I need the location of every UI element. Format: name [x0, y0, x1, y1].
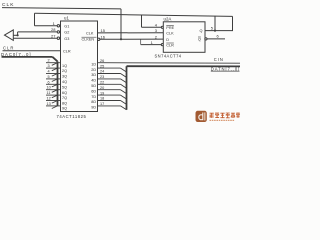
wire Q net drop to PRE pin4: [141, 15, 143, 27]
svg-text:28: 28: [51, 27, 56, 32]
bubble U2A Qbar: [205, 38, 207, 40]
svg-text:13: 13: [47, 102, 51, 106]
svg-text:16: 16: [101, 35, 106, 40]
svg-text:4Q: 4Q: [62, 80, 67, 84]
watermark logo eeworld: [196, 111, 207, 122]
svg-text:5Q: 5Q: [62, 85, 67, 89]
svg-text:7Q: 7Q: [62, 96, 67, 100]
wire pin13 row: [46, 105, 61, 107]
wire U2A Q pin5: [205, 30, 233, 32]
svg-text:9D: 9D: [91, 106, 96, 110]
svg-text:27: 27: [51, 33, 56, 38]
svg-text:CLR: CLR: [166, 43, 174, 47]
svg-text:5: 5: [48, 75, 50, 79]
svg-text:Q: Q: [198, 37, 201, 41]
svg-text:2: 2: [48, 59, 50, 63]
svg-text:CIN: CIN: [214, 57, 224, 62]
svg-text:7D: 7D: [91, 95, 96, 99]
svg-text:u1: u1: [64, 15, 69, 20]
svg-text:DATN[7..0]: DATN[7..0]: [211, 66, 240, 71]
input port triangle: [5, 30, 14, 41]
wire Q feedback net horizontal: [35, 13, 233, 16]
wire U2A CLR pin1: [141, 44, 162, 46]
svg-text:CLK: CLK: [166, 31, 174, 35]
svg-text:G2: G2: [64, 31, 69, 35]
flip-flop U2A body: [163, 22, 205, 53]
U2A Qbar overline: [198, 36, 201, 38]
svg-text:CLR: CLR: [3, 46, 14, 51]
svg-text:Q: Q: [200, 29, 203, 33]
bus DATN horizontal to edge: [127, 65, 241, 67]
svg-text:3: 3: [48, 64, 50, 68]
wire pin25 row: [98, 67, 121, 69]
watermark url: [210, 119, 235, 121]
bubble U1 CLKEN pin16: [98, 38, 100, 40]
wire port up branch: [17, 32, 19, 35]
wire CLK net drop to D input: [120, 9, 122, 39]
wire Q net end drop: [232, 16, 234, 30]
svg-text:5D: 5D: [91, 84, 96, 88]
wire pin19 row: [98, 94, 121, 96]
wire U2A CLR stub up: [140, 39, 142, 44]
wire U2A Qbar pin6 stub: [207, 38, 225, 40]
wire U2A PRE pin4: [142, 26, 162, 28]
wire pin18 row: [98, 100, 121, 102]
junction dot on Q wire: [214, 30, 216, 32]
svg-text:D: D: [166, 38, 169, 42]
svg-text:1D: 1D: [91, 62, 96, 66]
IC U1 74ACT11825 body: [61, 21, 98, 112]
junction dot CLK/D: [120, 38, 122, 40]
svg-text:15: 15: [101, 28, 106, 33]
bus DAC0 vertical: [57, 61, 59, 106]
bus DATN vertical: [126, 66, 128, 110]
watermark text EEWorld: [210, 113, 240, 118]
svg-text:6: 6: [48, 80, 50, 84]
wire pin17 row: [98, 105, 121, 107]
bus DAC0 bend: [53, 57, 58, 62]
DATN label underline: [211, 70, 240, 72]
bubble U2A PRE: [161, 26, 163, 28]
wire CLR net: [3, 50, 61, 52]
wire pin3 row: [46, 67, 61, 69]
bus DAC0 horizontal: [2, 56, 53, 58]
svg-text:6D: 6D: [91, 89, 96, 93]
svg-text:PRE: PRE: [166, 26, 174, 30]
wire to pin 27: [13, 37, 57, 39]
U2A CLR overline: [166, 42, 174, 44]
svg-text:12: 12: [47, 97, 51, 101]
wire pin10 row: [46, 89, 61, 91]
wire from port: [13, 34, 17, 36]
wire pin6 row: [46, 83, 61, 85]
bubble U2A CLR: [161, 44, 163, 46]
svg-text:4: 4: [48, 70, 50, 74]
svg-text:9Q: 9Q: [62, 107, 67, 111]
wire U1 CLKEN pin16 to U2A pin2: [100, 38, 163, 40]
svg-text:CLK: CLK: [86, 31, 94, 35]
svg-text:6Q: 6Q: [62, 91, 67, 95]
bubble pin28: [57, 31, 59, 33]
svg-text:u2A: u2A: [164, 17, 172, 22]
svg-text:G1: G1: [64, 25, 69, 29]
bubble pin1: [57, 25, 59, 27]
junction dot port: [17, 34, 19, 36]
wire pin24 row: [98, 73, 121, 75]
svg-text:CLKEN: CLKEN: [82, 38, 95, 42]
wire to pin 1 of U1: [35, 25, 58, 27]
wire U1 CLK pin15 to U2A pin3: [98, 32, 164, 34]
svg-text:2D: 2D: [91, 68, 96, 72]
wire pin12 row: [46, 100, 61, 102]
wire Q net drop at x215: [214, 16, 216, 31]
svg-text:2Q: 2Q: [62, 69, 67, 73]
svg-text:8D: 8D: [91, 100, 96, 104]
wire pin4 row: [46, 73, 61, 75]
svg-text:8Q: 8Q: [62, 102, 67, 106]
svg-text:G3: G3: [64, 37, 69, 41]
wire pin26 row / CIN net to edge: [98, 62, 241, 65]
wire CLK net horizontal: [2, 8, 121, 9]
svg-text:10: 10: [47, 86, 51, 90]
wire pin20 row: [98, 89, 121, 91]
svg-text:3Q: 3Q: [62, 75, 67, 79]
wire pin5 row: [46, 78, 61, 80]
wire Q net drop to pin1 of U1: [34, 13, 36, 25]
svg-text:CLR: CLR: [63, 50, 71, 54]
wire pin23 row: [98, 78, 121, 80]
svg-text:3D: 3D: [91, 73, 96, 77]
svg-text:4D: 4D: [91, 79, 96, 83]
svg-text:74ACT11825: 74ACT11825: [57, 114, 87, 119]
svg-text:SN74ACT74: SN74ACT74: [155, 53, 182, 58]
U2A PRE overline: [166, 25, 174, 27]
wire to pin 28: [18, 31, 58, 33]
wire pin22 row: [98, 83, 121, 85]
svg-text:CLK: CLK: [2, 2, 14, 8]
wire pin2 row: [46, 62, 61, 64]
U1 CLKEN overline: [82, 36, 97, 38]
svg-text:11: 11: [47, 91, 51, 95]
svg-text:1Q: 1Q: [62, 64, 67, 68]
wire pin11 row: [46, 94, 61, 96]
bubble pin27: [57, 37, 59, 39]
